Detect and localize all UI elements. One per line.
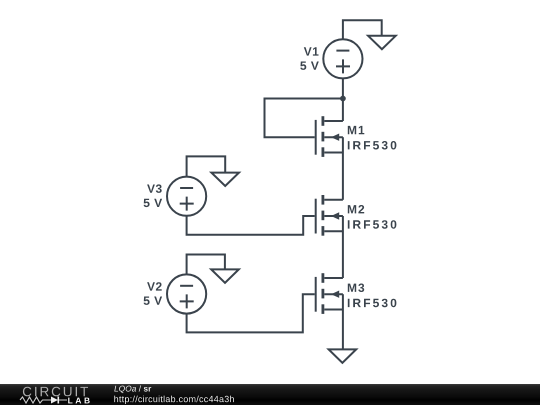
wire V3 to M2 gate (187, 216, 315, 235)
wire V1 minus to node A / M1 drain (342, 78, 344, 121)
voltage source V2 (167, 274, 206, 313)
label M2 (348, 205, 364, 213)
caption url (114, 396, 234, 404)
voltage source V3 (167, 177, 206, 216)
wire M1 source to M2 drain (342, 137, 344, 200)
label V3 (147, 184, 162, 193)
wire V2 top to ground GND2 (187, 255, 225, 275)
node A (junction dot) (340, 96, 346, 102)
label V1 (304, 47, 319, 55)
footer bar (0, 384, 540, 405)
wire V1 top to ground GND1 (343, 20, 382, 39)
ground GND3 (211, 173, 239, 186)
label M3 value IRF530 (348, 299, 397, 308)
wire M3 source to ground (342, 294, 344, 349)
label V3 value 5 V (144, 199, 163, 207)
label V2 value 5 V (144, 297, 163, 305)
CircuitLab logo (18, 395, 70, 405)
transistor M2 (316, 195, 343, 236)
label V1 value 5 V (300, 62, 319, 70)
label M1 (348, 126, 365, 134)
label M3 (348, 284, 364, 293)
wire node A to M1 gate (265, 99, 343, 138)
label V2 (147, 282, 162, 290)
label M2 value IRF530 (348, 220, 397, 229)
transistor M1 (316, 116, 343, 157)
ground GND2 (211, 269, 239, 282)
logo text LAB (68, 398, 90, 404)
logo text CIRCUIT (23, 387, 88, 397)
transistor M3 (316, 273, 343, 314)
wire V3 top to ground GND3 (187, 156, 226, 176)
ground GND4 (bottom, M3 source) (329, 349, 357, 362)
wire V2 to M3 gate (187, 294, 315, 332)
ground GND1 (368, 36, 396, 49)
voltage source V1 (323, 39, 362, 78)
wire M2 source to M3 drain (342, 216, 344, 278)
caption LQOa / sr (114, 385, 151, 393)
label M1 value IRF530 (348, 141, 397, 150)
